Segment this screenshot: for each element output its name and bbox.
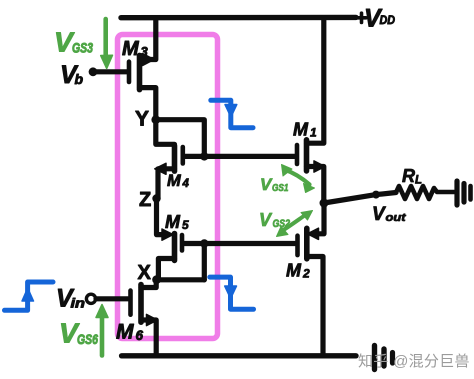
transistor M6 drain wire up to X — [141, 280, 156, 288]
waveform step-down (blue) bottom, at X — [210, 277, 254, 309]
svg-text:M: M — [286, 261, 302, 281]
svg-text:GS6: GS6 — [77, 331, 98, 347]
transistor M3 channel bar — [137, 55, 143, 89]
svg-text:1: 1 — [310, 126, 317, 140]
label VGS3 (green) — [54, 27, 93, 58]
transistor M5 source wire down to X — [158, 259, 174, 280]
node Vout measurement dot — [372, 191, 380, 199]
label M1 — [293, 120, 317, 140]
node X — [152, 275, 161, 284]
transistor M4 source wire down to Z with arrow — [158, 169, 175, 199]
transistor M2 gate bar — [295, 236, 300, 255]
label M5 — [165, 212, 189, 232]
node Vb terminal dot — [89, 67, 98, 76]
wire: M5 gate line to M2 gate — [184, 241, 297, 246]
svg-text:DD: DD — [380, 15, 396, 27]
wire: Y right then down to M4 gate rail — [156, 120, 205, 157]
arrow VGS2 (green double-headed curve) — [281, 215, 306, 232]
transistor M2 channel bar — [304, 228, 310, 258]
label VGS2 (green) — [259, 210, 290, 230]
net label +VDD plus sign — [357, 13, 366, 22]
svg-text:Y: Y — [135, 108, 149, 131]
label Vin — [56, 285, 85, 313]
svg-text:X: X — [138, 262, 152, 284]
transistor M1 channel bar — [304, 140, 310, 171]
resistor RL zigzag — [396, 186, 454, 199]
svg-text:b: b — [75, 71, 84, 87]
label M2 — [286, 261, 310, 281]
transistor M5 drain arrow (points right into channel) — [162, 229, 173, 240]
wire: bottom rail — [122, 353, 356, 358]
ground (bottom, sideways scribble) — [372, 346, 377, 370]
node junction at M4 gate — [200, 152, 208, 160]
label M3 — [122, 38, 149, 60]
transistor M2 source wire down to bottom rail — [307, 257, 323, 356]
svg-text:知乎 @混分巨兽: 知乎 @混分巨兽 — [358, 353, 470, 370]
transistor M1 source arrow (points right) — [314, 161, 325, 172]
svg-text:2: 2 — [302, 267, 310, 281]
arrow VGS1 (green double-headed curve) — [285, 170, 310, 185]
transistor M1 source wire down to output with arrow — [307, 167, 324, 204]
ground (right, sideways) at load — [454, 181, 459, 205]
arrow VGS3 (green, downward) — [103, 19, 108, 59]
transistor M5 gate bar — [180, 235, 185, 251]
svg-text:R: R — [402, 166, 415, 186]
node Y — [151, 115, 160, 124]
wire: output node to load — [324, 193, 396, 204]
transistor M6 source wire to bottom rail — [141, 320, 156, 356]
label Vb — [60, 61, 84, 89]
svg-text:M: M — [116, 321, 134, 344]
label RL — [402, 166, 422, 187]
wire: Y down to M4 drain — [156, 120, 175, 145]
transistor M6 gate bar — [128, 291, 133, 315]
svg-text:5: 5 — [182, 218, 189, 232]
transistor M4 source arrow (points left) — [155, 163, 166, 174]
net label +VDD — [364, 5, 395, 33]
svg-text:4: 4 — [182, 178, 190, 190]
arrow VGS6 (green, upward) — [100, 314, 105, 356]
highlight box (pink rectangle) — [118, 35, 218, 339]
svg-text:M: M — [293, 120, 309, 140]
transistor M5 channel bar — [172, 234, 178, 261]
node Z — [152, 194, 160, 202]
transistor M4 gate bar — [181, 147, 186, 164]
label Vout — [372, 204, 407, 225]
svg-text:Z: Z — [139, 189, 151, 211]
svg-text:3: 3 — [141, 44, 149, 59]
svg-text:M: M — [122, 38, 140, 60]
svg-text:V: V — [372, 204, 386, 225]
transistor M1 drain wire up to VDD rail — [307, 18, 324, 144]
transistor M4 channel bar — [172, 146, 178, 171]
svg-text:M: M — [165, 212, 181, 232]
transistor M6 channel bar — [138, 285, 144, 323]
svg-text:out: out — [386, 212, 408, 224]
transistor M6 source arrow (points right) — [147, 314, 158, 325]
label VGS1 (green) — [260, 175, 289, 194]
waveform step-down (blue) top, at Y — [211, 100, 253, 127]
label M6 — [116, 321, 144, 344]
svg-text:GS1: GS1 — [272, 182, 289, 194]
wire: junction down to X wire — [202, 244, 207, 280]
node Vout junction — [320, 199, 329, 208]
wire: VDD rail to M3 source — [144, 18, 156, 60]
svg-text:in: in — [71, 296, 86, 311]
transistor M3 gate bar — [127, 62, 132, 82]
wire: X right to riser — [157, 277, 205, 282]
label M4 — [167, 172, 190, 190]
transistor M3 source arrow (points into channel) — [143, 54, 154, 65]
transistor M2 drain wire from output node with arrow (points left) — [312, 203, 324, 234]
svg-text:V: V — [259, 210, 273, 230]
svg-text:L: L — [415, 175, 422, 187]
svg-text:GS3: GS3 — [72, 40, 93, 56]
wire: Vin to M6 gate — [96, 296, 128, 301]
node junction at M5 gate / X riser — [200, 239, 208, 247]
wire: M4 gate line to M1 gate — [184, 154, 295, 159]
waveform step-up (blue) at Vin — [5, 282, 54, 310]
transistor M3 drain wire to Y — [140, 88, 156, 120]
svg-text:6: 6 — [136, 328, 144, 343]
wire: Vb to M3 gate — [93, 69, 127, 74]
wire: +VDD top rail — [121, 15, 356, 21]
label VGS6 (green) — [59, 318, 98, 349]
svg-text:M: M — [167, 172, 182, 190]
wire: Z down to M5 drain — [157, 199, 169, 235]
node Vin input terminal (open circle) — [86, 294, 95, 303]
transistor M1 gate bar — [295, 145, 300, 164]
